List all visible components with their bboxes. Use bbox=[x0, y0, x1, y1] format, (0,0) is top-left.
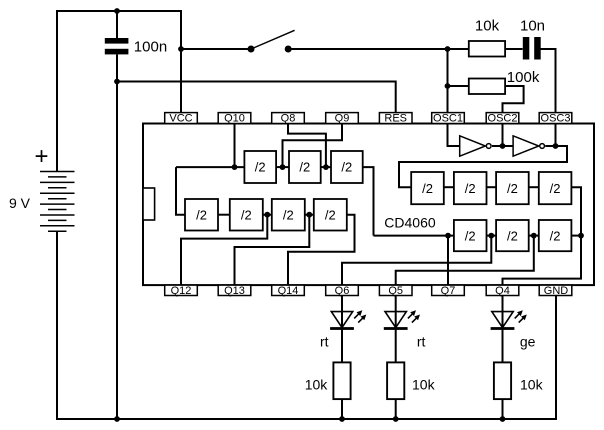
svg-text:rt: rt bbox=[320, 334, 329, 350]
svg-text:/2: /2 bbox=[550, 228, 561, 243]
svg-text:/2: /2 bbox=[241, 207, 252, 222]
svg-text:Q7: Q7 bbox=[441, 285, 456, 297]
svg-text:/2: /2 bbox=[550, 181, 561, 196]
svg-text:10n: 10n bbox=[520, 18, 545, 35]
svg-text:/2: /2 bbox=[325, 207, 336, 222]
svg-text:10k: 10k bbox=[305, 376, 329, 392]
svg-text:Q5: Q5 bbox=[388, 285, 403, 297]
svg-text:100n: 100n bbox=[134, 38, 167, 55]
svg-text:/2: /2 bbox=[507, 228, 518, 243]
svg-text:10k: 10k bbox=[475, 18, 500, 35]
svg-text:Q9: Q9 bbox=[335, 113, 350, 125]
svg-text:OSC1: OSC1 bbox=[433, 113, 463, 125]
svg-text:/2: /2 bbox=[422, 181, 433, 196]
svg-text:+: + bbox=[35, 143, 49, 170]
svg-text:GND: GND bbox=[544, 285, 569, 297]
svg-text:ge: ge bbox=[520, 334, 536, 350]
svg-text:VCC: VCC bbox=[169, 113, 192, 125]
svg-text:/2: /2 bbox=[196, 207, 207, 222]
svg-text:Q12: Q12 bbox=[171, 285, 192, 297]
svg-text:OSC3: OSC3 bbox=[541, 113, 571, 125]
svg-text:/2: /2 bbox=[255, 160, 266, 175]
svg-text:Q10: Q10 bbox=[224, 113, 245, 125]
svg-text:rt: rt bbox=[417, 334, 426, 350]
svg-text:/2: /2 bbox=[465, 181, 476, 196]
svg-text:Q14: Q14 bbox=[278, 285, 299, 297]
svg-text:Q4: Q4 bbox=[495, 285, 510, 297]
svg-text:/2: /2 bbox=[507, 181, 518, 196]
svg-text:CD4060: CD4060 bbox=[384, 215, 436, 231]
svg-text:/2: /2 bbox=[283, 207, 294, 222]
svg-text:Q13: Q13 bbox=[224, 285, 245, 297]
svg-text:/2: /2 bbox=[299, 160, 310, 175]
svg-text:/2: /2 bbox=[341, 160, 352, 175]
svg-text:9 V: 9 V bbox=[9, 195, 31, 211]
svg-text:OSC2: OSC2 bbox=[488, 113, 518, 125]
svg-text:10k: 10k bbox=[412, 376, 436, 392]
svg-text:/2: /2 bbox=[465, 228, 476, 243]
svg-text:Q6: Q6 bbox=[335, 285, 350, 297]
svg-text:100k: 100k bbox=[507, 69, 540, 86]
svg-text:RES: RES bbox=[384, 113, 407, 125]
svg-text:10k: 10k bbox=[520, 376, 544, 392]
svg-text:Q8: Q8 bbox=[281, 113, 296, 125]
